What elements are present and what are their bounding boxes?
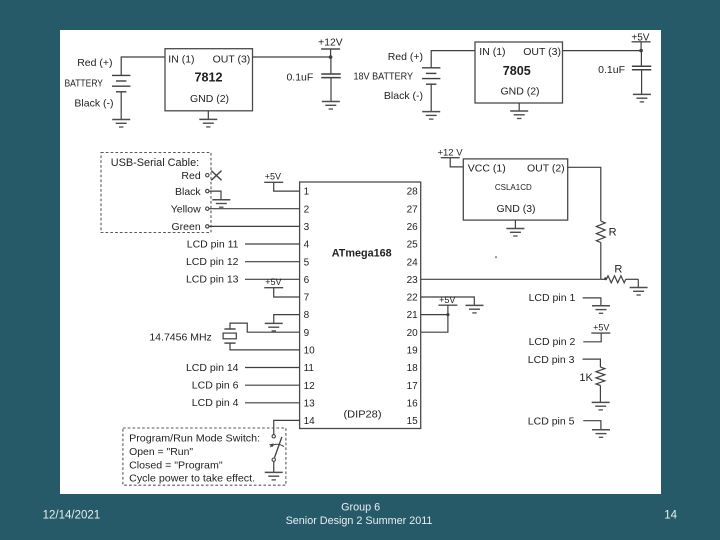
supply +5V bar for LCD pin 2 (591, 332, 610, 334)
label R of R1 (609, 226, 617, 238)
supply +5V bar for pin 7 (264, 287, 283, 289)
svg-text:IN (1): IN (1) (479, 46, 505, 58)
label Cycle power to take effect. (129, 473, 255, 485)
svg-text:Black (-): Black (-) (74, 98, 113, 110)
svg-text:OUT (3): OUT (3) (523, 46, 561, 58)
label R of R2 (614, 263, 622, 275)
no-connect X on Red (211, 171, 221, 181)
wire LCD pin 6 to U3 pin 12 (245, 384, 300, 386)
resistor R2 lead left (601, 278, 607, 280)
label LCD pin 12 (186, 256, 239, 268)
label LCD pin 5 (528, 416, 575, 428)
terminal Green (206, 225, 209, 228)
svg-text:10: 10 (304, 346, 316, 357)
svg-text:Green: Green (172, 221, 201, 233)
svg-text:14: 14 (664, 509, 677, 521)
U3 left pin numbers 1-14 (304, 187, 316, 427)
svg-text:Red: Red (181, 170, 200, 182)
svg-text:ATmega168: ATmega168 (332, 248, 392, 260)
label LCD pin 13 (186, 274, 239, 286)
label Red wire (181, 170, 200, 182)
svg-text:28: 28 (407, 187, 419, 198)
supply +5V bar (632, 41, 651, 43)
wire LCD pin 3 to resistor R3 (583, 359, 601, 367)
label Black (-) of B2 (384, 90, 423, 102)
svg-text:LCD pin 13: LCD pin 13 (186, 274, 239, 286)
svg-text:CSLA1CD: CSLA1CD (495, 183, 532, 192)
wire B1 positive to U1 IN (121, 57, 165, 75)
svg-text:18: 18 (407, 363, 419, 374)
wire Green to U3 pin 3 (209, 225, 300, 227)
wire +5V bar to node (640, 42, 642, 51)
U2 pin label IN (1) (479, 46, 505, 58)
crystal Y1 top plate (224, 328, 235, 330)
svg-text:Red (+): Red (+) (388, 51, 423, 63)
svg-text:+12 V: +12 V (437, 148, 463, 159)
terminal Yellow (206, 207, 209, 210)
supply +12V label (318, 37, 343, 48)
capacitor C1 0.1uF (321, 74, 340, 78)
U2 value 7805 (503, 63, 531, 78)
switch S1 bottom terminal (272, 458, 275, 461)
label 0.1uF capacitor C2 (598, 64, 625, 76)
label Red (+) of battery B2 (388, 51, 423, 63)
switch S1 top terminal (272, 435, 275, 438)
svg-text:14: 14 (304, 416, 316, 427)
wire LCD pin 5 to ground (583, 421, 601, 430)
label LCD pin 2 (529, 336, 576, 348)
svg-text:IN (1): IN (1) (168, 53, 194, 65)
svg-text:Program/Run Mode Switch:: Program/Run Mode Switch: (129, 433, 260, 445)
svg-text:3: 3 (304, 222, 310, 233)
node +5V junction (639, 49, 643, 53)
svg-text:18V BATTERY: 18V BATTERY (354, 70, 414, 82)
wire U2 OUT to +5V node (563, 50, 642, 52)
svg-text:5: 5 (304, 257, 310, 268)
node pin 21 junction (446, 313, 449, 316)
wire U4 OUT to resistor R1 (568, 167, 601, 221)
U1 value 7812 (195, 69, 223, 84)
svg-text:LCD pin 5: LCD pin 5 (528, 416, 575, 428)
ground U4 (506, 229, 524, 237)
svg-text:LCD pin 11: LCD pin 11 (187, 238, 239, 250)
svg-text:Yellow: Yellow (171, 203, 201, 215)
svg-text:GND (2): GND (2) (500, 86, 539, 98)
wire node to U3 pin 21 (421, 314, 448, 316)
wire C1 to ground (330, 78, 332, 102)
terminal Red (206, 174, 209, 177)
svg-text:8: 8 (304, 310, 310, 321)
wire +5V to U3 pin 20 (421, 305, 448, 332)
U4 pin label GND (3) (496, 203, 535, 215)
wire S1 to ground (273, 461, 275, 472)
svg-text:15: 15 (407, 416, 419, 427)
stray mark artifact (495, 256, 497, 258)
battery B2 (422, 68, 440, 84)
ground U1 (199, 119, 217, 127)
wire U1 OUT to +12V node (253, 56, 331, 58)
supply +12V bar (321, 48, 340, 50)
svg-text:LCD pin 2: LCD pin 2 (529, 336, 576, 348)
svg-text:USB-Serial Cable:: USB-Serial Cable: (111, 157, 200, 169)
U3 right pin numbers 28-15 (407, 187, 419, 427)
svg-text:Red (+): Red (+) (77, 57, 112, 69)
label LCD pin 6 (192, 380, 239, 392)
wire R2 to ground (637, 279, 639, 287)
wire LCD pin 4 to U3 pin 13 (245, 402, 300, 404)
label USB-Serial Cable: (111, 157, 200, 169)
svg-text:11: 11 (304, 363, 315, 374)
wire crystal to U3 pin 10 (230, 343, 300, 350)
svg-text:+12V: +12V (318, 37, 343, 48)
label Program/Run Mode Switch: (129, 433, 260, 445)
svg-text:LCD pin 4: LCD pin 4 (192, 397, 239, 409)
svg-text:(DIP28): (DIP28) (344, 409, 382, 421)
U4 pin label VCC (1) (468, 162, 506, 174)
svg-text:9: 9 (304, 328, 310, 339)
svg-text:4: 4 (304, 240, 310, 251)
U2 pin label OUT (3) (523, 46, 561, 58)
ground pin 22 (466, 305, 484, 313)
svg-text:19: 19 (407, 346, 419, 357)
svg-text:Black: Black (175, 186, 201, 198)
svg-text:+5V: +5V (265, 277, 281, 287)
svg-text:20: 20 (407, 328, 419, 339)
svg-text:GND (3): GND (3) (496, 203, 535, 215)
svg-text:OUT (2): OUT (2) (527, 162, 565, 174)
svg-text:+5V: +5V (265, 172, 281, 182)
ground B1 (112, 120, 130, 128)
svg-text:+5V: +5V (593, 323, 609, 333)
wire +5V to U3 pin 7 (274, 288, 300, 297)
svg-text:1K: 1K (579, 372, 593, 384)
wire U3 pin 23 to node N1 (421, 278, 601, 280)
white schematic panel (60, 30, 661, 494)
wire U3 pin 22 to ground (421, 297, 475, 305)
svg-text:13: 13 (304, 398, 316, 409)
battery B1 (112, 75, 130, 91)
label 18V BATTERY of B2 (354, 70, 414, 82)
wire node to C1 (330, 57, 332, 74)
wire U3 pin 9 to crystal (230, 323, 300, 332)
svg-text:7812: 7812 (195, 69, 223, 84)
wire B1 negative to ground (120, 92, 122, 120)
U4 pin label OUT (2) (527, 162, 565, 174)
ground S1 (265, 472, 283, 480)
supply +5V label for pins 21 20 (439, 295, 455, 305)
wire Black to ground (209, 191, 221, 200)
supply +12 V bar for U4 (441, 157, 460, 159)
wire Yellow to U3 pin 2 (209, 208, 300, 210)
wire LCD pin 11 to U3 pin 4 (245, 243, 300, 245)
label LCD pin 1 (529, 292, 576, 304)
svg-text:27: 27 (407, 204, 419, 215)
node +12V junction (329, 55, 333, 59)
switch S1 motion arrow (269, 443, 284, 447)
wire R1 to node N1 (600, 243, 602, 280)
label LCD pin 11 (187, 238, 239, 250)
footer page number 14 (664, 509, 677, 521)
svg-text:7805: 7805 (503, 63, 531, 78)
ground Black (212, 200, 230, 208)
label 1K of R3 (579, 372, 593, 384)
svg-text:7: 7 (304, 293, 310, 304)
U1 pin label GND (2) (190, 93, 229, 105)
footer date 12/14/2021 (43, 509, 101, 521)
svg-text:BATTERY: BATTERY (65, 77, 104, 89)
svg-text:LCD pin 6: LCD pin 6 (192, 380, 239, 392)
resistor R1 (596, 221, 605, 242)
svg-text:24: 24 (407, 257, 419, 268)
supply +5V label (631, 33, 649, 44)
svg-text:0.1uF: 0.1uF (598, 64, 625, 76)
svg-text:OUT (3): OUT (3) (213, 53, 251, 65)
wire U1 GND to ground (207, 111, 209, 120)
svg-text:14.7456 MHz: 14.7456 MHz (149, 332, 211, 344)
svg-text:LCD pin 3: LCD pin 3 (528, 354, 575, 366)
svg-text:LCD pin 14: LCD pin 14 (186, 362, 239, 374)
wire LCD pin 12 to U3 pin 5 (245, 261, 300, 263)
svg-text:1: 1 (304, 187, 310, 198)
ground B2 (422, 112, 440, 120)
svg-text:Closed = "Program": Closed = "Program" (129, 460, 223, 472)
svg-text:Cycle power to take effect.: Cycle power to take effect. (129, 473, 255, 485)
U4 value CSLA1CD (495, 183, 532, 192)
sensor U4 CSLA1CD body (463, 159, 567, 220)
switch S1 arm (275, 437, 282, 458)
svg-text:0.1uF: 0.1uF (286, 71, 313, 83)
supply +5V label for pin 1 (265, 172, 281, 182)
label LCD pin 3 (528, 354, 575, 366)
wire LCD pin 13 to U3 pin 6 (245, 278, 300, 280)
svg-text:12/14/2021: 12/14/2021 (43, 509, 101, 521)
svg-text:17: 17 (407, 381, 419, 392)
wire C2 to ground (641, 70, 643, 95)
ground C2 (633, 94, 651, 102)
svg-text:6: 6 (304, 275, 310, 286)
svg-text:12: 12 (304, 381, 316, 392)
svg-text:21: 21 (407, 310, 419, 321)
ground U2 (510, 111, 528, 119)
label Black wire (175, 186, 201, 198)
svg-text:R: R (609, 226, 617, 238)
ground LCD pin 5 (592, 430, 610, 438)
svg-text:Black (-): Black (-) (384, 90, 423, 102)
ground LCD pin 1 (592, 306, 610, 314)
wire +5V to U3 pin 1 (274, 182, 300, 191)
label Closed = Program (129, 460, 223, 472)
svg-text:26: 26 (407, 222, 419, 233)
regulator U1 7812 (165, 49, 253, 111)
svg-text:GND (2): GND (2) (190, 93, 229, 105)
label BATTERY of B1 (65, 77, 104, 89)
supply +5V label for pin 7 (265, 277, 281, 287)
node N1 junction (604, 277, 607, 280)
footer subtitle Senior Design 2 Summer 2011 (286, 515, 433, 527)
svg-text:Senior Design 2 Summer 2011: Senior Design 2 Summer 2011 (286, 515, 433, 527)
program mode dashed box (123, 428, 286, 485)
svg-text:VCC (1): VCC (1) (468, 162, 506, 174)
wire LCD pin 14 to U3 pin 11 (245, 367, 300, 369)
U3 package label (DIP28) (344, 409, 382, 421)
wire R3 to ground (599, 386, 601, 403)
supply +5V bar for pins 21 20 (438, 304, 457, 306)
crystal Y1 bottom plate (224, 342, 235, 344)
regulator U2 7805 (475, 42, 563, 103)
wire B2 negative to ground (430, 84, 432, 111)
wire U3 pin 8 to ground (274, 315, 300, 324)
U3 value ATmega168 (332, 248, 392, 260)
svg-text:22: 22 (407, 293, 419, 304)
wire B2 positive to U2 IN (431, 51, 475, 68)
wire node to C2 (640, 51, 642, 67)
resistor R2 (606, 276, 625, 283)
supply +12 V label for U4 (437, 148, 463, 159)
crystal Y1 body (223, 333, 236, 339)
supply +5V label for LCD pin 2 (593, 323, 609, 333)
label 0.1uF capacitor C1 (286, 71, 313, 83)
svg-text:Open = "Run": Open = "Run" (129, 446, 193, 458)
U2 pin label GND (2) (500, 86, 539, 98)
wire +12V to U4 VCC (450, 158, 463, 167)
svg-text:23: 23 (407, 275, 419, 286)
svg-text:Group 6: Group 6 (341, 501, 380, 513)
capacitor C2 0.1uF (632, 66, 651, 70)
svg-text:+5V: +5V (439, 295, 455, 305)
MCU U3 ATmega168 body (300, 182, 421, 429)
ground pin 8 (265, 323, 283, 331)
ground R2 (630, 288, 648, 296)
wire LCD pin 2 to +5V (583, 333, 601, 342)
wire LCD pin 1 to ground (583, 298, 601, 306)
label Red (+) of battery B1 (77, 57, 112, 69)
label Green wire (172, 221, 201, 233)
svg-text:2: 2 (304, 204, 310, 215)
label LCD pin 14 (186, 362, 239, 374)
ground C1 (322, 102, 340, 110)
label Black (-) of B1 (74, 98, 113, 110)
label LCD pin 4 (192, 397, 239, 409)
svg-text:R: R (614, 263, 622, 275)
USB-Serial cable dashed box (101, 153, 211, 233)
wire +12V bar to node (330, 49, 332, 57)
U1 pin label IN (1) (168, 53, 194, 65)
svg-text:LCD pin 12: LCD pin 12 (186, 256, 239, 268)
resistor R2 lead right (626, 278, 639, 280)
wire U3 pin 14 to switch S1 (274, 420, 300, 434)
label 14.7456 MHz (149, 332, 211, 344)
supply +5V bar for pin 1 (264, 181, 283, 183)
label Open = Run (129, 446, 193, 458)
svg-text:16: 16 (407, 398, 419, 409)
wire U2 GND to ground (518, 103, 520, 111)
svg-text:LCD pin 1: LCD pin 1 (529, 292, 576, 304)
resistor R3 1K (596, 367, 605, 385)
wire U4 GND to ground (514, 220, 516, 228)
terminal Black (206, 189, 209, 192)
footer title Group 6 (341, 501, 380, 513)
label Yellow wire (171, 203, 201, 215)
U1 pin label OUT (3) (213, 53, 251, 65)
ground R3 (592, 402, 610, 410)
svg-text:25: 25 (407, 240, 419, 251)
